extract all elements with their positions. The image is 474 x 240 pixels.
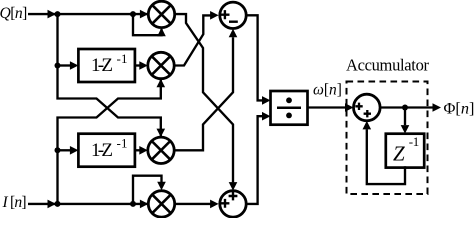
svg-text:-1: -1 (409, 134, 420, 149)
adder A2 (accumulator) (354, 94, 381, 121)
junction dot Q line / left vertical (55, 11, 61, 17)
differentiator D2 box 1-Z^-1 (78, 134, 134, 167)
subtractor S1 (220, 2, 246, 28)
wire subtractor output to divider numerator (246, 15, 262, 100)
wire I squaring hook into M4 top (133, 176, 162, 204)
wire into differentiator D1 (58, 64, 71, 66)
junction dot left vertical / D1 input (55, 63, 61, 69)
wire M2 output up to subtractor plus input (174, 15, 210, 65)
wire I vertical to cross-over to M2 (58, 80, 161, 204)
label Accumulator (346, 55, 430, 74)
svg-text:1-Z: 1-Z (91, 55, 113, 76)
multiplier M3 (Q times dI) (148, 137, 174, 163)
wire adder output to divider denominator (246, 116, 262, 204)
wire Q vertical to cross-over to M3 (58, 14, 161, 136)
node Q[n] (0, 5, 27, 22)
wire accumulator output to Phi[n] (380, 106, 432, 108)
divider block (271, 91, 308, 125)
wire M3 output up to subtractor minus input (174, 37, 233, 150)
multiplier M2 (I times dQ) (148, 52, 174, 78)
accumulator dashed box (347, 82, 428, 195)
wire down into delay Z^-1 (404, 108, 406, 126)
adder A1 (220, 191, 246, 217)
wire Q squaring hook into M1 bottom (133, 14, 162, 35)
junction dot Q line / squaring hook (130, 11, 136, 17)
node I[n] (2, 194, 27, 211)
junction dot I line / squaring hook (130, 201, 136, 207)
node Phi[n] (444, 98, 474, 117)
multiplier M4 (I squared) (148, 191, 174, 217)
svg-text:-1: -1 (117, 51, 128, 66)
svg-text:ω[n]: ω[n] (313, 82, 342, 99)
wire into differentiator D2 (58, 149, 71, 151)
svg-text:-1: -1 (117, 136, 128, 151)
svg-text:Q[n]: Q[n] (0, 5, 27, 22)
wire M1 output down to adder (crosses M2 and M3 outputs) (175, 14, 233, 182)
wire divider output into accumulator adder (308, 106, 346, 108)
wire I[n] input line (28, 203, 148, 205)
svg-text:1-Z: 1-Z (91, 140, 113, 161)
svg-text:Z: Z (393, 142, 405, 166)
junction dot left vertical / D2 input (55, 147, 61, 153)
differentiator D1 box 1-Z^-1 (78, 49, 134, 82)
multiplier M1 (Q squared) (148, 1, 174, 27)
wire D1 output into M2 (135, 64, 140, 66)
wire M4 output into adder (175, 203, 211, 205)
wire delay feedback into accumulator adder bottom (367, 129, 405, 184)
svg-text:Φ[n]: Φ[n] (444, 98, 474, 117)
svg-text:Accumulator: Accumulator (346, 55, 430, 74)
wire D2 output into M3 (135, 149, 140, 151)
junction dot accumulator output / Z branch (402, 105, 408, 111)
delay block Z^-1 (386, 134, 424, 168)
wire Q[n] input line (28, 13, 148, 15)
svg-text:I [n]: I [n] (2, 194, 27, 211)
node omega[n] (313, 82, 342, 99)
junction dot I line / left vertical (55, 201, 61, 207)
